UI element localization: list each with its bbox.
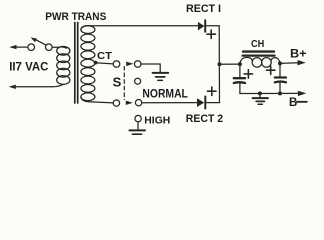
plus sign RECT2 output xyxy=(208,87,217,95)
svg-text:PWR TRANS: PWR TRANS xyxy=(45,11,106,23)
switch S1 section B throw (NORMAL) xyxy=(135,100,141,106)
svg-text:RECT 2: RECT 2 xyxy=(186,113,223,125)
switch S blade xyxy=(36,40,47,46)
wire bus to choke xyxy=(220,63,240,65)
wire secondary bottom to switch xyxy=(89,102,114,103)
wire xyxy=(15,86,53,88)
svg-text:B+: B+ xyxy=(290,49,307,61)
svg-text:B: B xyxy=(289,97,297,109)
svg-text:HIGH: HIGH xyxy=(144,114,170,126)
node choke output dot xyxy=(278,61,282,65)
transformer T1 primary winding xyxy=(59,47,67,48)
switch S1 section B pole xyxy=(113,100,119,106)
wire diode to corner xyxy=(206,25,219,27)
wire xyxy=(16,46,28,48)
node CT junction dot xyxy=(94,61,98,65)
svg-text:RECT I: RECT I xyxy=(186,3,221,15)
switch S1 section B wiper arrow xyxy=(126,101,133,105)
capacitor C1 stem xyxy=(239,64,241,77)
diode RECT1 xyxy=(198,22,204,31)
capacitor C2 stem xyxy=(279,63,281,76)
switch S contact right xyxy=(46,44,53,51)
wire secondary top to rectifier 1 xyxy=(86,25,198,27)
switch S contact left xyxy=(28,44,35,51)
svg-text:S: S xyxy=(113,75,122,90)
transformer T1 core xyxy=(74,23,76,104)
transformer T1 secondary winding xyxy=(81,26,88,30)
wire B minus rail xyxy=(240,92,299,94)
capacitor C1 plates xyxy=(234,77,245,79)
choke CH core bars xyxy=(243,50,274,52)
wire choke to B plus arrow xyxy=(280,62,298,65)
switch S1 section B throw (HIGH) xyxy=(135,115,141,121)
wire CT to switch xyxy=(96,63,113,64)
diode RECT2 xyxy=(197,98,204,107)
plus sign C2 xyxy=(267,66,275,74)
ground (CT switch) xyxy=(153,72,169,74)
node choke input dot xyxy=(238,62,242,66)
switch S1 section A wiper arrow xyxy=(126,62,133,67)
AC input arrow top xyxy=(9,45,16,49)
ground (HIGH contact) xyxy=(137,122,139,130)
switch S1 gang dashed link xyxy=(123,67,125,100)
arrow B plus xyxy=(298,60,306,65)
svg-text:CH: CH xyxy=(251,39,264,50)
svg-text:II7 VAC: II7 VAC xyxy=(9,59,49,73)
arrow B minus xyxy=(298,91,306,96)
AC input arrow bottom xyxy=(9,85,16,89)
plus sign C1 xyxy=(244,70,252,78)
switch S1 section A throw (NORMAL) xyxy=(134,61,141,68)
wire to rectifier 2 xyxy=(142,102,197,104)
ground (B minus rail) xyxy=(259,93,261,97)
choke CH winding xyxy=(240,57,253,64)
wire diode 2 to bus xyxy=(206,102,219,104)
node capacitor C2 bottom dot xyxy=(278,91,282,95)
node junction dot xyxy=(218,62,222,66)
wire rectifier output bus (vertical) xyxy=(218,26,220,103)
capacitor C2 plates xyxy=(275,76,286,78)
switch S1 section A pole xyxy=(113,61,120,68)
plus sign RECT1 output xyxy=(207,30,216,38)
switch S1 section A throw (HIGH, open) xyxy=(135,78,141,84)
svg-text:CT: CT xyxy=(97,51,112,62)
svg-text:NORMAL: NORMAL xyxy=(142,89,188,101)
node ground junction dot xyxy=(258,91,262,95)
wire to ground xyxy=(141,64,160,72)
wire xyxy=(52,46,58,48)
